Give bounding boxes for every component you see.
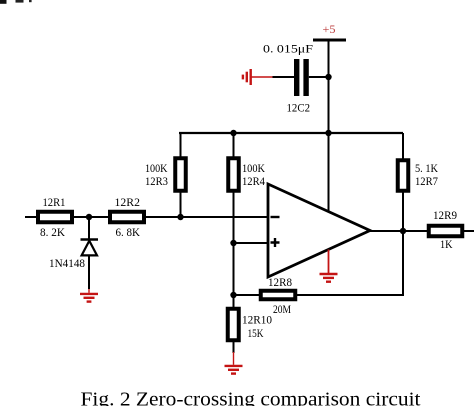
resistor R9 (12R9 1K) bbox=[429, 208, 463, 251]
wire 12R4 bottom run down to 12R10 bbox=[233, 193, 235, 308]
wire 12R3 stubs bbox=[180, 133, 182, 217]
wire noninverting input bbox=[234, 242, 269, 244]
svg-text:12R9: 12R9 bbox=[433, 208, 457, 222]
resistor R7 (12R7 5.1K) bbox=[398, 160, 439, 191]
wire 12R1 to 12R2 bbox=[74, 216, 108, 218]
resistor R4 (12R4 100K) bbox=[228, 158, 265, 191]
wire feedback bottom bbox=[297, 294, 404, 296]
svg-text:20M: 20M bbox=[273, 302, 291, 316]
svg-text:15K: 15K bbox=[248, 326, 264, 340]
wire output bbox=[369, 230, 427, 232]
wire 12R2 to op-amp inverting input bbox=[146, 216, 268, 218]
wire +5 rail down to top rail bbox=[328, 42, 330, 134]
svg-text:+5: +5 bbox=[323, 22, 336, 36]
junction top rail / +5 line bbox=[325, 130, 331, 136]
svg-text:1K: 1K bbox=[440, 237, 453, 251]
wire red to ground (capacitor) bbox=[252, 76, 273, 78]
ground (capacitor, rotated left) bbox=[243, 69, 251, 85]
svg-text:5. 1K: 5. 1K bbox=[415, 161, 438, 175]
wire capacitor right plate to +5 line bbox=[309, 76, 329, 78]
wire capacitor left plate (black segment) bbox=[273, 76, 295, 78]
svg-text:12R1: 12R1 bbox=[43, 195, 66, 209]
wire 12R9 to right edge bbox=[464, 230, 474, 232]
svg-text:100K: 100K bbox=[242, 161, 265, 175]
wire 12R4 top stub bbox=[233, 133, 235, 157]
ground (diode) bbox=[80, 289, 98, 302]
resistor R3 (12R3 100K) bbox=[145, 158, 186, 191]
svg-text:Fig. 2 Zero-crossing compariso: Fig. 2 Zero-crossing comparison circuit bbox=[81, 390, 422, 406]
resistor R8 (12R8 20M) bbox=[261, 275, 296, 316]
wire +5 into op-amp top edge bbox=[328, 133, 330, 212]
op-amp U1 bbox=[268, 184, 370, 277]
diode D1 (1N4148) bbox=[49, 217, 98, 289]
resistor R2 (12R2 6.8K) bbox=[110, 195, 144, 239]
ground (op-amp) bbox=[320, 250, 338, 282]
wire top rail bbox=[179, 132, 403, 134]
junction feedback node bbox=[230, 292, 236, 298]
wire input left bbox=[25, 216, 37, 218]
junction diode node bbox=[86, 214, 92, 220]
svg-text:12R4: 12R4 bbox=[242, 174, 265, 188]
svg-text:6. 8K: 6. 8K bbox=[116, 225, 141, 239]
junction top rail / 12R4 bbox=[230, 130, 236, 136]
svg-text:0. 015μF: 0. 015μF bbox=[263, 42, 313, 56]
svg-text:12R7: 12R7 bbox=[415, 174, 438, 188]
svg-text:12R8: 12R8 bbox=[268, 275, 292, 289]
svg-text:1N4148: 1N4148 bbox=[49, 256, 85, 270]
svg-text:12R2: 12R2 bbox=[115, 195, 141, 209]
svg-text:8. 2K: 8. 2K bbox=[40, 225, 65, 239]
resistor R1 (12R1 8.2K) bbox=[38, 195, 72, 239]
ground (12R10) bbox=[225, 352, 243, 374]
power +5 symbol bbox=[313, 22, 346, 40]
junction noninverting node bbox=[230, 240, 236, 246]
wire 12R10 to ground bbox=[233, 342, 235, 353]
svg-text:12C2: 12C2 bbox=[287, 101, 311, 115]
capacitor 12C2 bbox=[263, 42, 313, 115]
svg-text:12R3: 12R3 bbox=[145, 174, 168, 188]
junction capacitor node bbox=[325, 74, 331, 80]
wire 12R7 stubs bbox=[402, 133, 404, 231]
svg-text:100K: 100K bbox=[145, 161, 168, 175]
wire feedback down from output bbox=[402, 231, 404, 295]
text fragment top-left bbox=[0, 0, 32, 4]
svg-text:12R10: 12R10 bbox=[242, 313, 272, 327]
junction output node bbox=[400, 228, 406, 234]
wire 12R8 to feedback node bbox=[234, 294, 260, 296]
resistor R10 (12R10 15K) bbox=[228, 309, 272, 341]
junction 12R3 node bbox=[177, 214, 183, 220]
